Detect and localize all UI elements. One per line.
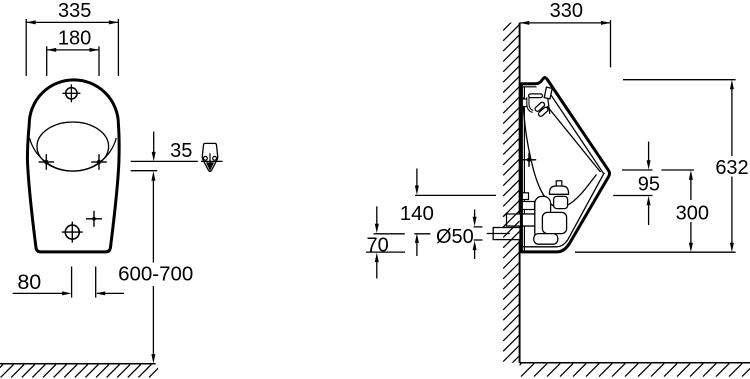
svg-text:632: 632 bbox=[715, 157, 748, 179]
svg-text:35: 35 bbox=[170, 140, 192, 162]
svg-text:335: 335 bbox=[58, 0, 91, 22]
svg-text:95: 95 bbox=[638, 174, 660, 196]
svg-text:330: 330 bbox=[550, 0, 583, 22]
svg-text:70: 70 bbox=[366, 234, 388, 256]
svg-text:600-700: 600-700 bbox=[118, 263, 193, 286]
svg-text:300: 300 bbox=[676, 203, 709, 225]
svg-text:180: 180 bbox=[58, 27, 91, 49]
svg-text:140: 140 bbox=[400, 202, 434, 225]
svg-text:Ø50: Ø50 bbox=[436, 226, 474, 248]
svg-text:80: 80 bbox=[17, 270, 41, 294]
